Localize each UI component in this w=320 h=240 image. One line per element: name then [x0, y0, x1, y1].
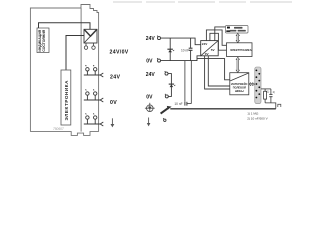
svg-text:ШИНЫ: ШИНЫ: [235, 89, 244, 93]
svg-text:СОСТОЯНИЯ: СОСТОЯНИЯ: [42, 29, 46, 51]
svg-text:ПОЛЕВОЙ: ПОЛЕВОЙ: [233, 86, 246, 90]
svg-text:24V/0V: 24V/0V: [110, 50, 129, 56]
svg-text:750607: 750607: [53, 127, 64, 131]
svg-text:0V: 0V: [146, 95, 153, 101]
svg-text:ЭЛЕКТРОНИКА: ЭЛЕКТРОНИКА: [64, 80, 69, 121]
svg-text:24V: 24V: [146, 72, 156, 78]
svg-text:2): 2): [273, 90, 275, 94]
svg-text:1): 1): [267, 89, 269, 93]
svg-text:10 nF: 10 nF: [174, 102, 182, 106]
svg-text:24V: 24V: [110, 75, 120, 81]
svg-text:ИНТЕРФЕЙС: ИНТЕРФЕЙС: [231, 82, 248, 86]
svg-text:10 nF: 10 nF: [181, 49, 189, 53]
svg-text:0V: 0V: [110, 100, 117, 106]
svg-text:24V: 24V: [202, 42, 208, 46]
svg-text:ЭЛЕКТРОНИКА: ЭЛЕКТРОНИКА: [230, 48, 253, 52]
svg-text:0V: 0V: [146, 59, 153, 65]
svg-text:1) 1 MΩ: 1) 1 MΩ: [247, 111, 259, 115]
svg-text:2) 10 nF/500 V: 2) 10 nF/500 V: [247, 116, 268, 120]
svg-text:24V: 24V: [146, 36, 156, 42]
svg-text:ИНДИКАЦИЯ: ИНДИКАЦИЯ: [38, 29, 42, 51]
